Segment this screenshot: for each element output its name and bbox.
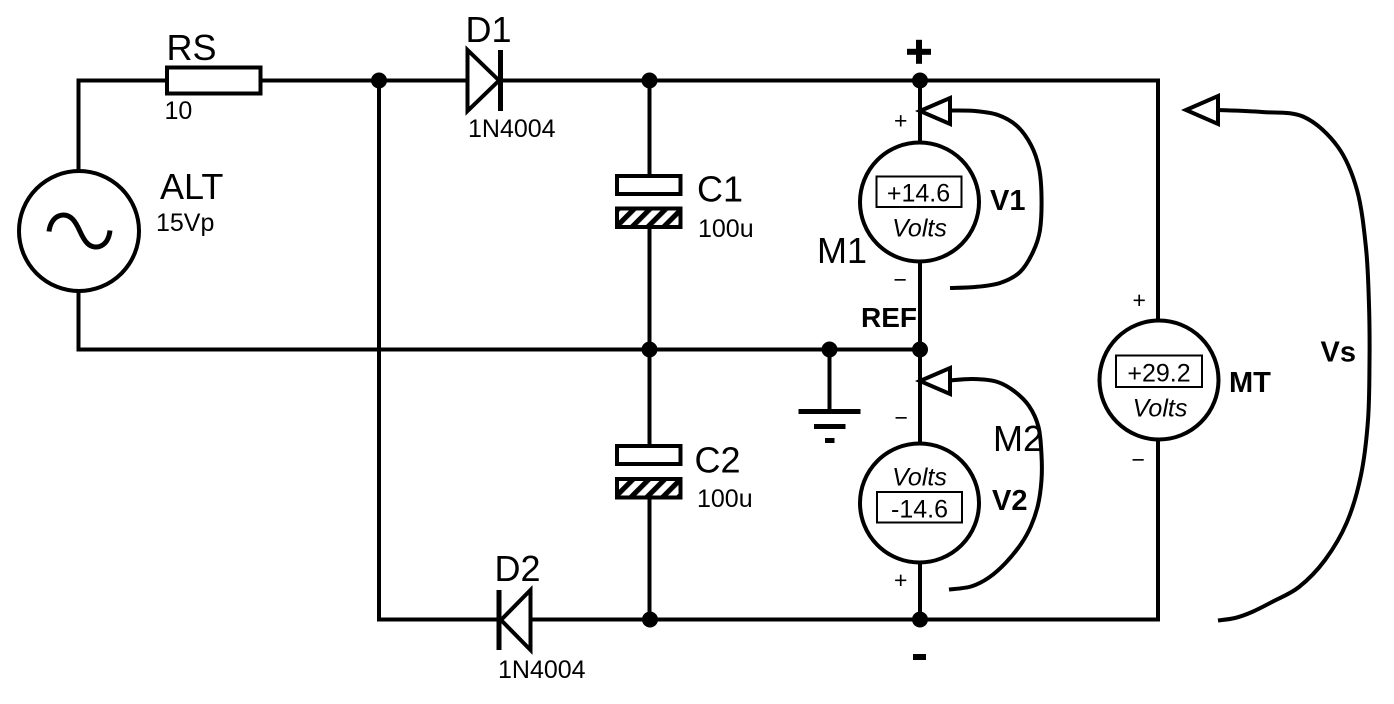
junction node A top — [371, 73, 387, 89]
svg-text:D2: D2 — [495, 548, 541, 589]
wire middle REF rail — [77, 348, 921, 352]
junction capacitor branch top — [642, 73, 658, 89]
svg-text:Vs: Vs — [1321, 337, 1356, 369]
svg-text:M2: M2 — [993, 418, 1043, 459]
svg-text:−: − — [894, 267, 907, 293]
wire capacitor branch middle — [648, 227, 652, 446]
terminal - bottom — [913, 654, 926, 660]
terminal + top — [907, 40, 931, 64]
svg-text:1N4004: 1N4004 — [498, 656, 586, 684]
wire left vertical from ALT bottom to middle rail — [77, 289, 81, 350]
capacitor C2 — [617, 446, 681, 498]
svg-text:V2: V2 — [992, 485, 1027, 517]
svg-text:V1: V1 — [990, 185, 1025, 217]
svg-text:RS: RS — [167, 27, 217, 68]
svg-text:+14.6: +14.6 — [887, 180, 950, 208]
meter M1 — [860, 143, 979, 262]
svg-text:C1: C1 — [697, 169, 743, 210]
junction capacitor branch REF — [642, 342, 658, 358]
diode D1 — [468, 50, 501, 111]
svg-text:-14.6: -14.6 — [891, 496, 948, 524]
svg-text:−: − — [1132, 447, 1145, 473]
ground — [799, 350, 861, 441]
wire vertical node-A drop from top rail to bottom rail — [377, 81, 381, 620]
meter M2 — [860, 444, 979, 563]
probe arrow V1 — [920, 98, 1042, 288]
wire capacitor branch upper — [648, 81, 652, 177]
wire left vertical from top rail to ALT top — [77, 81, 81, 174]
svg-text:+: + — [894, 567, 907, 593]
svg-text:−: − — [895, 405, 908, 431]
junction meter branch top — [912, 73, 928, 89]
meter MT — [1100, 321, 1219, 440]
junction meter branch REF — [912, 342, 928, 358]
svg-text:+: + — [1133, 287, 1146, 313]
junction meter branch bottom — [912, 612, 928, 628]
svg-text:Volts: Volts — [892, 215, 947, 243]
wire meter branch between M1 and M2 — [918, 262, 922, 444]
wire bottom rail — [377, 618, 1160, 622]
wire meter branch M2 bottom — [918, 563, 922, 620]
source ALT — [19, 171, 139, 291]
svg-text:10: 10 — [165, 97, 193, 125]
svg-text:Volts: Volts — [1133, 395, 1188, 423]
svg-text:M1: M1 — [817, 230, 867, 271]
svg-text:+29.2: +29.2 — [1127, 360, 1190, 388]
wire right vertical MT to bottom rail — [1156, 439, 1160, 620]
diode D2 — [499, 590, 531, 650]
probe arrow Vs — [1186, 96, 1370, 621]
svg-text:Volts: Volts — [892, 464, 947, 492]
svg-text:D1: D1 — [466, 9, 512, 50]
svg-text:+: + — [894, 108, 907, 134]
junction capacitor branch bottom — [642, 612, 658, 628]
wire right vertical top rail to MT — [1156, 79, 1160, 322]
capacitor C1 — [617, 176, 681, 227]
junction ground REF — [822, 342, 838, 358]
wire capacitor branch lower — [648, 497, 652, 620]
svg-text:100u: 100u — [698, 215, 754, 243]
probe arrow V2 — [920, 368, 1042, 590]
wire meter branch M1 top — [918, 81, 922, 143]
svg-text:C2: C2 — [695, 440, 741, 481]
wire top rail from source to right side — [77, 79, 1161, 83]
svg-text:ALT: ALT — [160, 166, 223, 207]
svg-text:15Vp: 15Vp — [156, 209, 214, 237]
svg-text:100u: 100u — [697, 485, 753, 513]
svg-text:REF: REF — [861, 302, 917, 333]
svg-text:1N4004: 1N4004 — [468, 115, 556, 143]
svg-text:MT: MT — [1229, 367, 1271, 399]
resistor RS — [167, 68, 261, 94]
